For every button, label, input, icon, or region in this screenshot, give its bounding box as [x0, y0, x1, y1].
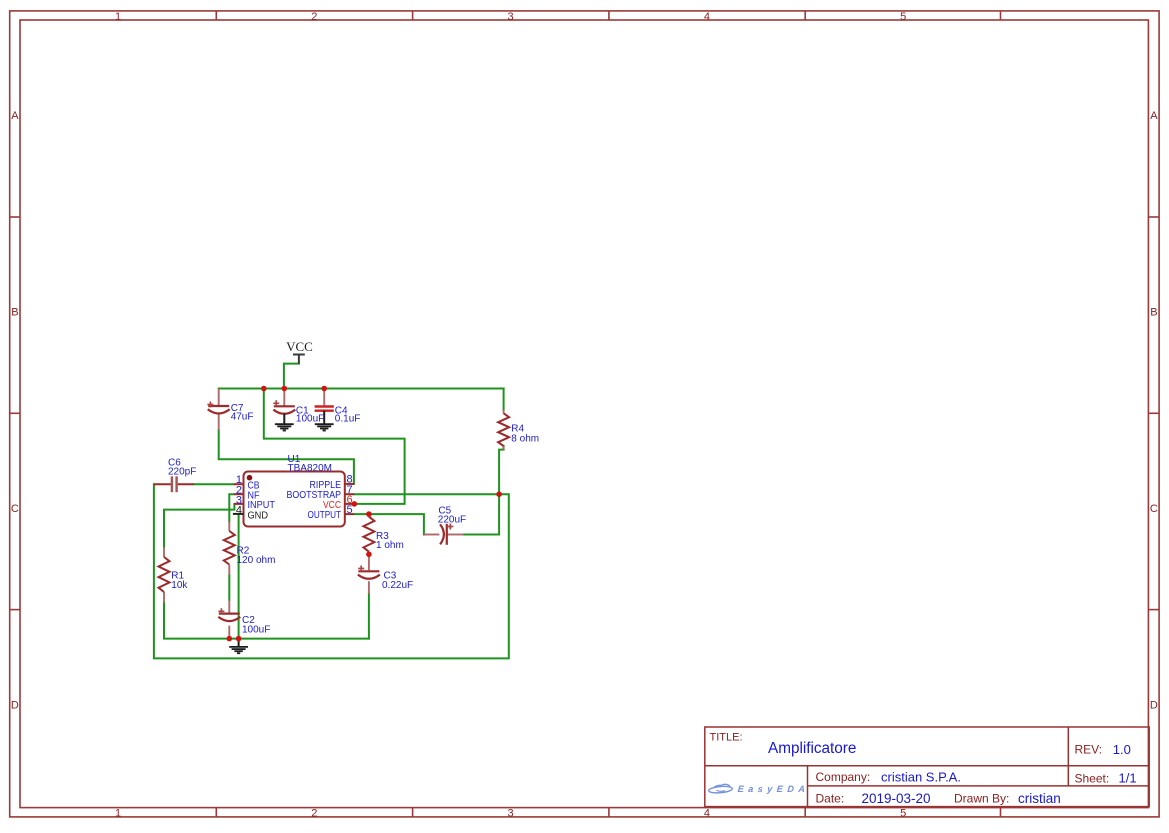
- svg-text:0.1uF: 0.1uF: [335, 413, 361, 424]
- svg-text:220pF: 220pF: [168, 467, 196, 478]
- svg-text:4: 4: [704, 11, 710, 23]
- svg-text:C: C: [1150, 503, 1158, 515]
- svg-text:1: 1: [115, 11, 121, 23]
- svg-text:1/1: 1/1: [1119, 771, 1137, 786]
- svg-text:Amplificatore: Amplificatore: [768, 740, 856, 757]
- svg-text:OUTPUT: OUTPUT: [308, 509, 342, 521]
- svg-text:B: B: [1150, 307, 1157, 319]
- svg-text:B: B: [11, 307, 18, 319]
- svg-text:120 ohm: 120 ohm: [237, 555, 276, 566]
- svg-text:2019-03-20: 2019-03-20: [862, 791, 931, 806]
- svg-text:10k: 10k: [171, 580, 188, 591]
- svg-text:1.0: 1.0: [1113, 742, 1131, 757]
- svg-text:Company:: Company:: [816, 770, 871, 784]
- svg-text:220uF: 220uF: [438, 515, 466, 526]
- svg-text:2: 2: [311, 11, 317, 23]
- svg-text:TITLE:: TITLE:: [710, 731, 743, 743]
- svg-text:A: A: [1150, 110, 1158, 122]
- svg-text:3: 3: [508, 11, 514, 23]
- svg-text:4: 4: [704, 808, 710, 820]
- svg-text:Drawn By:: Drawn By:: [954, 792, 1009, 806]
- svg-text:cristian: cristian: [1018, 791, 1061, 806]
- svg-text:EasyEDA: EasyEDA: [737, 784, 809, 794]
- svg-text:5: 5: [900, 808, 906, 820]
- svg-text:100uF: 100uF: [296, 413, 324, 424]
- svg-text:4: 4: [236, 504, 242, 516]
- svg-text:47uF: 47uF: [231, 412, 254, 423]
- svg-text:VCC: VCC: [286, 339, 313, 354]
- svg-text:GND: GND: [248, 510, 269, 522]
- svg-text:0.22uF: 0.22uF: [382, 580, 413, 591]
- svg-text:REV:: REV:: [1075, 743, 1103, 757]
- svg-text:TBA820M: TBA820M: [288, 463, 332, 474]
- svg-text:Date:: Date:: [816, 792, 845, 806]
- svg-text:D: D: [1150, 699, 1158, 711]
- svg-text:5: 5: [900, 11, 906, 23]
- svg-text:5: 5: [347, 504, 353, 516]
- svg-text:3: 3: [508, 808, 514, 820]
- svg-text:100uF: 100uF: [242, 625, 270, 636]
- svg-text:Sheet:: Sheet:: [1075, 771, 1110, 785]
- svg-text:cristian S.P.A.: cristian S.P.A.: [881, 769, 961, 784]
- svg-text:1 ohm: 1 ohm: [376, 540, 404, 551]
- svg-text:C: C: [11, 503, 19, 515]
- svg-text:A: A: [11, 110, 19, 122]
- svg-text:D: D: [11, 699, 19, 711]
- svg-text:1: 1: [115, 808, 121, 820]
- svg-text:8 ohm: 8 ohm: [511, 433, 539, 444]
- svg-text:2: 2: [311, 808, 317, 820]
